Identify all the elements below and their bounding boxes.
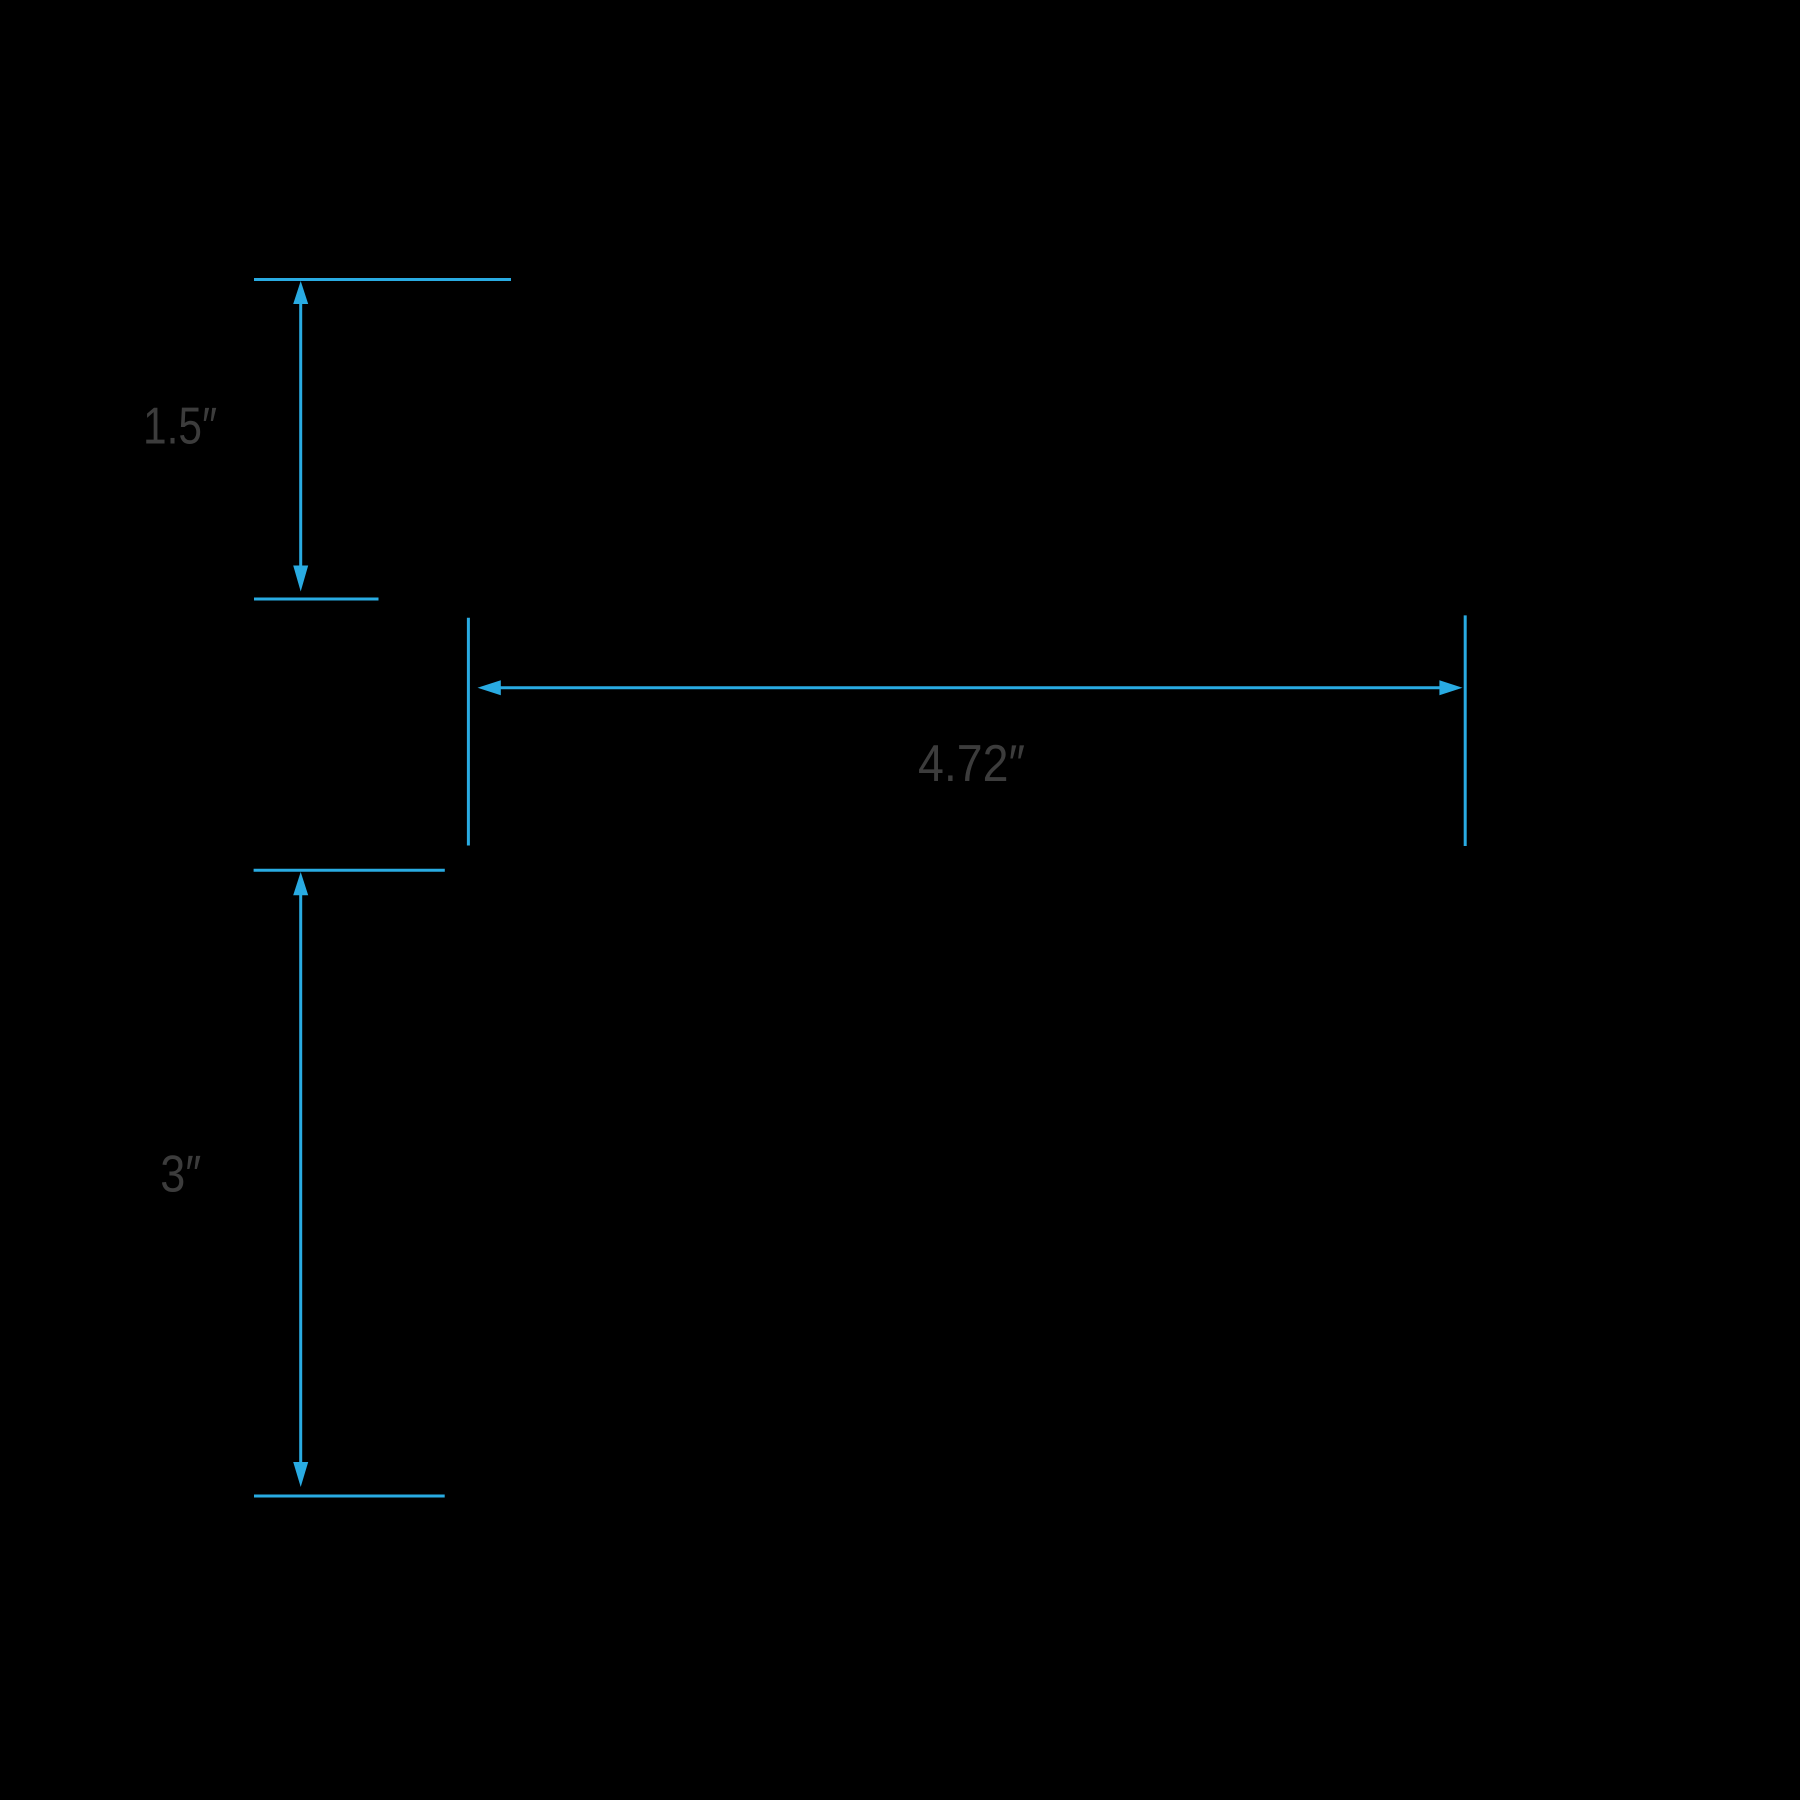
svg-text:1.5″: 1.5″: [143, 398, 217, 456]
dimension 4.72 inch (horizontal, middle): [468, 615, 1465, 846]
svg-text:4.72″: 4.72″: [918, 735, 1025, 793]
arrowhead left (4.72"): [478, 680, 501, 695]
extension line top: [254, 278, 511, 281]
dim line shaft: [299, 303, 302, 566]
arrowhead up (3"): [293, 872, 308, 895]
dimension 3 inch (vertical, bottom-left): [254, 870, 445, 1496]
dim line shaft: [501, 686, 1440, 689]
dimension 1.5 inch (vertical, top-left): [254, 280, 511, 600]
extension tick right: [1464, 615, 1467, 846]
arrowhead up (1.5"): [293, 281, 308, 304]
extension tick left: [467, 618, 470, 846]
extension line top: [254, 869, 445, 872]
extension line bottom: [254, 598, 379, 601]
extension line bottom: [254, 1495, 445, 1498]
arrowhead down (1.5"): [293, 566, 308, 592]
dim line shaft: [299, 894, 302, 1463]
arrowhead down (3"): [293, 1462, 308, 1487]
svg-text:3″: 3″: [160, 1145, 201, 1203]
arrowhead right (4.72"): [1439, 680, 1462, 695]
